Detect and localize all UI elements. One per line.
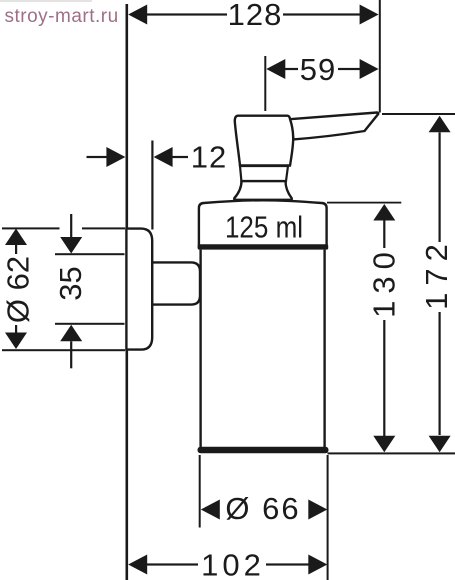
dim 128 right arrow [360,5,379,25]
dim 59 right arrow [360,59,379,79]
dim 172 top arrow [429,116,451,133]
bottle body right edge [323,250,325,448]
collar thick band [198,244,329,249]
dim 102 left tail [146,563,198,565]
pump bell [234,181,291,200]
pump handle / spout [290,113,378,140]
dim 35 down arrow [60,237,82,254]
bottle bottom thick bar [198,447,329,453]
extension line right (handle tip) [379,0,381,113]
dim 130 lower line [383,320,385,436]
svg-text:12: 12 [191,140,227,175]
dim 59 left arrow [266,59,285,79]
svg-text:35: 35 [53,266,88,300]
dia66 left extension line [199,455,201,528]
dim 130 top extension [327,202,401,204]
dim 172 upper line [439,132,441,242]
dim 172 top extension [382,113,455,115]
dim 102 left arrow [128,555,147,575]
dim 172 lower line [439,312,441,435]
dim 102 right tail [266,563,309,565]
dia62 line upper segment [15,245,17,254]
dim 35 lower line [70,341,72,368]
bottom extension line [328,452,455,454]
dim 12 left tail [87,156,110,158]
svg-text:128: 128 [228,0,283,32]
dim 12 right-pointing arrow [106,147,125,167]
dim 12 extension line [151,141,153,230]
dim 130 upper line [383,221,385,249]
dia62 top arrow [5,229,27,246]
dim 130 bottom arrow [373,436,395,453]
dim 35 up arrow [60,325,82,342]
dim 130 top arrow [373,204,395,221]
dia66 right arrow [308,500,327,520]
dia62 bottom extension line [2,349,125,351]
dim 172 bottom arrow [429,436,451,453]
dim 35 upper line [70,214,72,238]
svg-text:Ø 62: Ø 62 [1,256,36,323]
dim 12 tail to text [171,156,188,158]
svg-text:Ø 66: Ø 66 [225,491,300,526]
dim 128 left arrow [128,5,147,25]
pump neck [240,166,288,181]
top gray sliver [0,0,92,2]
pump head [235,116,293,166]
bottle body left edge [199,250,201,448]
svg-text:102: 102 [201,548,265,580]
dim 35 bottom extension [55,323,125,325]
dia66 left arrow [201,500,220,520]
dim 35 top extension [55,253,125,255]
svg-text:130: 130 [366,245,401,318]
dim 12 left-pointing arrow [154,147,173,167]
dim 59 left extension line [264,56,266,111]
dim 59 left tail [284,68,298,70]
bottle collar [199,200,327,248]
arm [152,262,200,304]
wall disc [126,229,152,350]
svg-text:172: 172 [419,237,454,310]
dia62 top extension line [2,227,60,229]
svg-text:125 ml: 125 ml [225,210,303,245]
svg-text:stroy-mart.ru: stroy-mart.ru [5,6,119,27]
dim 102 right arrow [308,555,327,575]
dim 59 right tail [338,68,361,70]
svg-text:59: 59 [300,52,336,87]
dim 128 right tail [283,13,362,15]
dia62 bottom arrow [5,333,27,350]
wall line [126,4,129,580]
dia66 right extension line [327,455,329,580]
dim 128 line left tail [146,13,227,15]
dia62 line lower segment [15,325,17,334]
